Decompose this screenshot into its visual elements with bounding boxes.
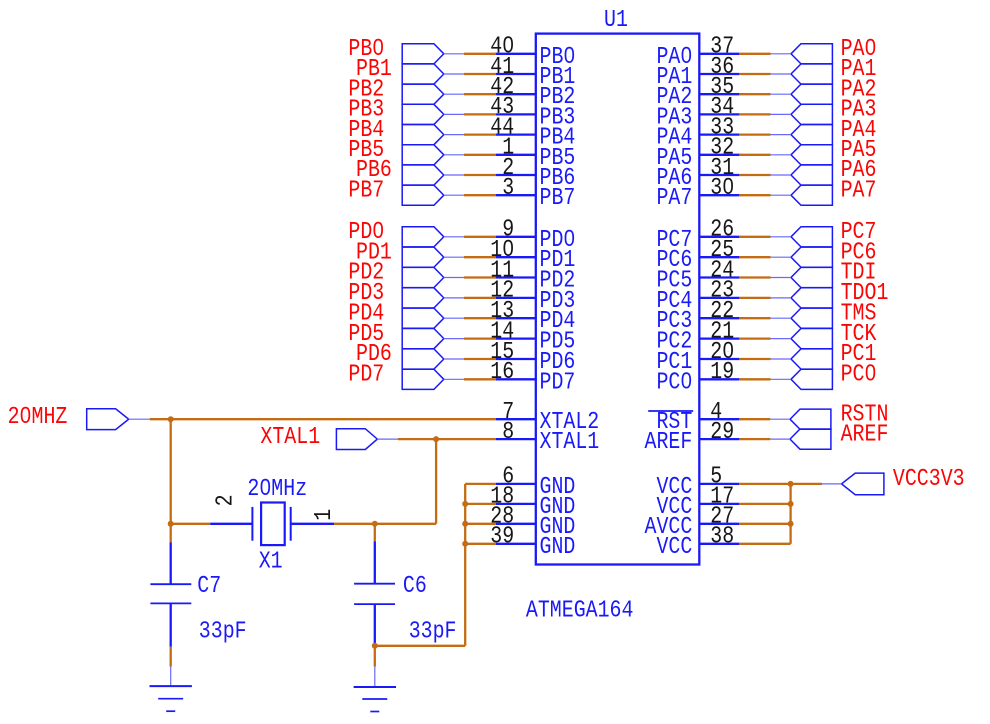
net label 20MHZ <box>8 403 68 430</box>
wire pin 6 to GND rail <box>465 483 496 485</box>
pin 29 (AREF) <box>645 418 740 455</box>
pin 39 (GND) <box>490 523 575 560</box>
net label PA1 <box>841 56 877 83</box>
net label PD1 <box>356 239 392 266</box>
RST active-low overbar <box>648 410 693 412</box>
wire 20MHZ to pin 7 <box>150 418 496 420</box>
hierarchical port PB3 (left) <box>402 104 464 124</box>
wire to pin 23 <box>739 297 770 299</box>
pin 30 (PA7) <box>656 174 739 211</box>
pin 26 (PC7) <box>656 216 739 253</box>
net label PB7 <box>348 177 384 204</box>
svg-text:X1: X1 <box>259 548 283 575</box>
svg-text:38: 38 <box>710 523 734 550</box>
wire to pin 2 <box>464 174 496 176</box>
crystal X1 <box>210 503 334 546</box>
pin 40 (PB0) <box>490 33 575 70</box>
net label PC0 <box>841 361 877 388</box>
svg-text:PA7: PA7 <box>841 177 877 204</box>
pin 23 (PC4) <box>656 277 739 314</box>
hierarchical port PA2 (right) <box>771 84 833 104</box>
net label PC1 <box>841 341 877 368</box>
pin 35 (PA2) <box>656 73 739 110</box>
wire to pin 32 <box>739 154 770 156</box>
pin 21 (PC2) <box>656 318 739 355</box>
net label PB3 <box>348 96 384 123</box>
wire to pin 9 <box>464 236 496 238</box>
net label PD7 <box>348 361 384 388</box>
svg-text:C7: C7 <box>197 572 221 599</box>
junction on 20MHZ net <box>168 416 174 422</box>
capacitor C7 <box>150 543 191 647</box>
hierarchical port PD0 (left) <box>402 227 464 247</box>
wire to pin 13 <box>464 317 496 319</box>
svg-text:XTAL1: XTAL1 <box>540 429 600 456</box>
hierarchical port PB6 (left) <box>402 165 464 185</box>
net label PD5 <box>348 320 384 347</box>
hierarchical port PC1 (right) <box>771 349 833 369</box>
wire crystal pin 2 <box>171 523 211 525</box>
svg-text:VCC3V3: VCC3V3 <box>893 466 965 493</box>
wire to pin 24 <box>739 276 770 278</box>
hierarchical port TCK (right) <box>771 329 833 349</box>
net label PD0 <box>348 218 384 245</box>
wire to pin 30 <box>739 194 770 196</box>
pin 20 (PC1) <box>656 338 739 375</box>
junction at crystal pin 2 node <box>168 521 174 527</box>
hierarchical port PD3 (left) <box>402 288 464 308</box>
ground symbol (C6) <box>354 667 396 712</box>
svg-text:20MHz: 20MHz <box>247 475 307 502</box>
hierarchical port PA3 (right) <box>771 104 833 124</box>
net label PA2 <box>841 76 877 103</box>
wire C6 to ground <box>374 646 376 667</box>
pin 17 (VCC) <box>656 483 739 520</box>
svg-text:AREF: AREF <box>841 421 889 448</box>
net label PD2 <box>348 259 384 286</box>
svg-text:PC0: PC0 <box>841 361 877 388</box>
net label PD6 <box>356 341 392 368</box>
pin 16 (PD7) <box>490 359 575 396</box>
net label PB1 <box>356 56 392 83</box>
wire to pin 19 <box>739 378 770 380</box>
pin 4 (RST) <box>656 398 739 435</box>
svg-text:PB7: PB7 <box>540 185 576 212</box>
wire to pin 29 <box>739 438 770 440</box>
svg-text:PD7: PD7 <box>540 369 576 396</box>
net label PA6 <box>841 157 877 184</box>
wire to pin 41 <box>464 73 496 75</box>
pin 24 (PC5) <box>656 257 739 294</box>
net label PC6 <box>841 239 877 266</box>
C6 value 33pF <box>409 618 457 645</box>
wire to pin 1 <box>464 154 496 156</box>
net label TCK <box>841 320 878 347</box>
hierarchical port PD7 (left) <box>402 369 464 389</box>
junction at C6 top node <box>372 521 378 527</box>
pin 32 (PA5) <box>656 134 739 171</box>
hierarchical port PB4 (left) <box>402 125 464 145</box>
wire to pin 36 <box>739 73 770 75</box>
hierarchical port TDO1 (right) <box>771 288 833 308</box>
net label XTAL1 <box>260 423 320 450</box>
hierarchical port PA0 (right) <box>771 44 833 64</box>
net label PD3 <box>348 280 384 307</box>
VCC rail vertical wire <box>789 484 791 544</box>
wire to pin 21 <box>739 337 770 339</box>
wire to pin 12 <box>464 297 496 299</box>
svg-text:2: 2 <box>212 494 239 506</box>
svg-text:VCC: VCC <box>656 533 692 560</box>
pin 22 (PC3) <box>656 297 739 334</box>
pin 34 (PA3) <box>656 94 739 131</box>
hierarchical port PA7 (right) <box>771 185 833 205</box>
wire to pin 40 <box>464 53 496 55</box>
wire pin 17 to VCC rail <box>739 503 790 505</box>
svg-text:1: 1 <box>310 509 337 521</box>
svg-text:19: 19 <box>710 359 734 386</box>
pin 25 (PC6) <box>656 236 739 273</box>
C6 reference <box>403 573 427 600</box>
wire to pin 3 <box>464 194 496 196</box>
hierarchical port PC6 (right) <box>771 247 833 267</box>
svg-text:39: 39 <box>490 523 514 550</box>
svg-text:C6: C6 <box>403 573 427 600</box>
svg-text:U1: U1 <box>604 6 628 33</box>
pin 43 (PB3) <box>490 94 575 131</box>
pin 11 (PD2) <box>490 257 575 294</box>
net label VCC3V3 <box>893 466 965 493</box>
net label PB4 <box>348 116 384 143</box>
pin 33 (PA4) <box>656 114 739 151</box>
hierarchical port PD2 (left) <box>402 267 464 287</box>
svg-text:XTAL1: XTAL1 <box>260 423 320 450</box>
svg-text:PC0: PC0 <box>656 369 692 396</box>
pin 31 (PA6) <box>656 154 739 191</box>
hierarchical port PD6 (left) <box>402 349 464 369</box>
net label PA5 <box>841 136 877 163</box>
hierarchical port PC7 (right) <box>771 227 833 247</box>
hierarchical port PA1 (right) <box>771 64 833 84</box>
wire to pin 16 <box>464 378 496 380</box>
net label TMS <box>841 300 877 327</box>
pin 44 (PB4) <box>490 114 575 151</box>
hierarchical port PB1 (left) <box>402 64 464 84</box>
wire to pin 37 <box>739 53 770 55</box>
hierarchical port RSTN (right) <box>770 409 831 429</box>
pin 12 (PD3) <box>490 277 575 314</box>
svg-text:20MHZ: 20MHZ <box>8 403 68 430</box>
crystal reference X1 <box>259 548 283 575</box>
pin 41 (PB1) <box>490 53 575 90</box>
junctions on GND rail <box>462 501 468 507</box>
crystal value 20MHz <box>247 475 307 502</box>
net label PA3 <box>841 96 877 123</box>
svg-text:33pF: 33pF <box>409 618 457 645</box>
hierarchical port PB2 (left) <box>402 84 464 104</box>
hierarchical port AREF (right) <box>770 429 831 449</box>
net label PA0 <box>841 35 877 62</box>
svg-text:33pF: 33pF <box>199 618 247 645</box>
pin 19 (PC0) <box>656 359 739 396</box>
svg-text:8: 8 <box>502 418 514 445</box>
wire pin 27 to VCC rail <box>739 523 790 525</box>
svg-text:ATMEGA164: ATMEGA164 <box>526 597 634 624</box>
C7 reference <box>197 572 221 599</box>
wire to pin 10 <box>464 256 496 258</box>
hierarchical port PA5 (right) <box>771 145 833 165</box>
svg-text:3: 3 <box>502 174 514 201</box>
pin 27 (AVCC) <box>645 503 740 540</box>
hierarchical port VCC3V3 <box>822 473 884 495</box>
wire XTAL1 down to crystal pin 1 <box>435 439 437 524</box>
hierarchical port TMS (right) <box>771 308 833 328</box>
hierarchical port PB5 (left) <box>402 145 464 165</box>
svg-text:29: 29 <box>710 418 734 445</box>
capacitor C6 <box>354 542 395 646</box>
pin 15 (PD6) <box>490 338 575 375</box>
wire pin 5 to VCC rail <box>739 483 790 485</box>
pin 28 (GND) <box>490 503 575 540</box>
ground symbol (C7) <box>150 667 192 712</box>
wire pin 38 to VCC rail <box>739 543 790 545</box>
wire to pin 43 <box>464 113 496 115</box>
wire pin 18 to GND rail <box>465 503 496 505</box>
svg-text:AREF: AREF <box>645 429 693 456</box>
hierarchical port XTAL1 <box>336 429 398 450</box>
pin 3 (PB7) <box>496 174 576 211</box>
pin 9 (PD0) <box>496 216 576 253</box>
wire to pin 20 <box>739 358 770 360</box>
svg-text:30: 30 <box>710 174 734 201</box>
pin 2 (PB6) <box>496 154 576 191</box>
wire to pin 22 <box>739 317 770 319</box>
wire C6 bottom to GND rail <box>375 645 465 647</box>
junctions on VCC rail <box>788 481 794 487</box>
net label TDO1 <box>841 280 889 307</box>
crystal pin number 2 <box>212 494 239 506</box>
wire crystal pin 1 to C6 <box>334 523 375 525</box>
svg-text:PD7: PD7 <box>348 361 384 388</box>
wire to pin 33 <box>739 133 770 135</box>
junction on XTAL1 net <box>433 436 439 442</box>
wire XTAL1 to pin 8 <box>398 438 496 440</box>
net label PB2 <box>348 76 384 103</box>
wire to pin 14 <box>464 337 496 339</box>
hierarchical port PB7 (left) <box>402 185 464 205</box>
wire to pin 34 <box>739 113 770 115</box>
pin 42 (PB2) <box>490 73 575 110</box>
junction at C6 bottom node <box>372 643 378 649</box>
pin 10 (PD1) <box>490 236 575 273</box>
pin 38 (VCC) <box>656 523 739 560</box>
pin 18 (GND) <box>490 483 575 520</box>
pin 6 (GND) <box>496 463 576 500</box>
wire to C7 <box>170 524 172 543</box>
hierarchical port PA6 (right) <box>771 165 833 185</box>
net label PB6 <box>356 157 392 184</box>
svg-text:PB7: PB7 <box>348 177 384 204</box>
hierarchical port PC0 (right) <box>771 369 833 389</box>
net label PA4 <box>841 116 877 143</box>
wire to pin 31 <box>739 174 770 176</box>
part value ATMEGA164 <box>526 597 634 624</box>
wire to pin 15 <box>464 358 496 360</box>
pin 7 (XTAL2) <box>496 398 599 435</box>
wire VCC rail to port <box>791 483 822 485</box>
wire C7 to ground <box>170 647 172 667</box>
net label PB0 <box>348 35 384 62</box>
net label PB5 <box>348 136 384 163</box>
hierarchical port PA4 (right) <box>771 125 833 145</box>
wire to pin 4 <box>739 418 770 420</box>
hierarchical port PD5 (left) <box>402 329 464 349</box>
net label AREF <box>841 421 889 448</box>
pin 37 (PA0) <box>656 33 739 70</box>
pin 36 (PA1) <box>656 53 739 90</box>
pin 13 (PD4) <box>490 297 575 334</box>
wire to pin 25 <box>739 256 770 258</box>
wire to pin 26 <box>739 236 770 238</box>
wire to C6 <box>374 524 376 542</box>
wire to pin 44 <box>464 133 496 135</box>
C7 value 33pF <box>199 618 247 645</box>
hierarchical port PD4 (left) <box>402 308 464 328</box>
wire to pin 35 <box>739 93 770 95</box>
net label RSTN <box>841 401 889 428</box>
pin 1 (PB5) <box>496 134 576 171</box>
svg-text:GND: GND <box>540 533 576 560</box>
net label PA7 <box>841 177 877 204</box>
wire to pin 11 <box>464 276 496 278</box>
net label PC7 <box>841 218 877 245</box>
wire pin 28 to GND rail <box>465 523 496 525</box>
pin 8 (XTAL1) <box>496 418 599 455</box>
svg-text:16: 16 <box>490 359 514 386</box>
hierarchical port PD1 (left) <box>402 247 464 267</box>
wire to pin 42 <box>464 93 496 95</box>
wire pin 39 to GND rail <box>465 543 496 545</box>
wire 20MHZ down to crystal <box>170 419 172 524</box>
svg-text:PA7: PA7 <box>656 185 692 212</box>
crystal pin number 1 <box>310 509 337 521</box>
hierarchical port 20MHZ <box>87 409 150 430</box>
hierarchical port PB0 (left) <box>402 44 464 64</box>
reference designator U1 <box>604 6 628 33</box>
GND rail vertical wire <box>464 484 466 646</box>
pin 5 (VCC) <box>656 463 739 500</box>
net label TDI <box>841 259 877 286</box>
net label PD4 <box>348 300 384 327</box>
IC body U1 <box>536 34 700 565</box>
pin 14 (PD5) <box>490 318 575 355</box>
hierarchical port TDI (right) <box>771 267 833 287</box>
